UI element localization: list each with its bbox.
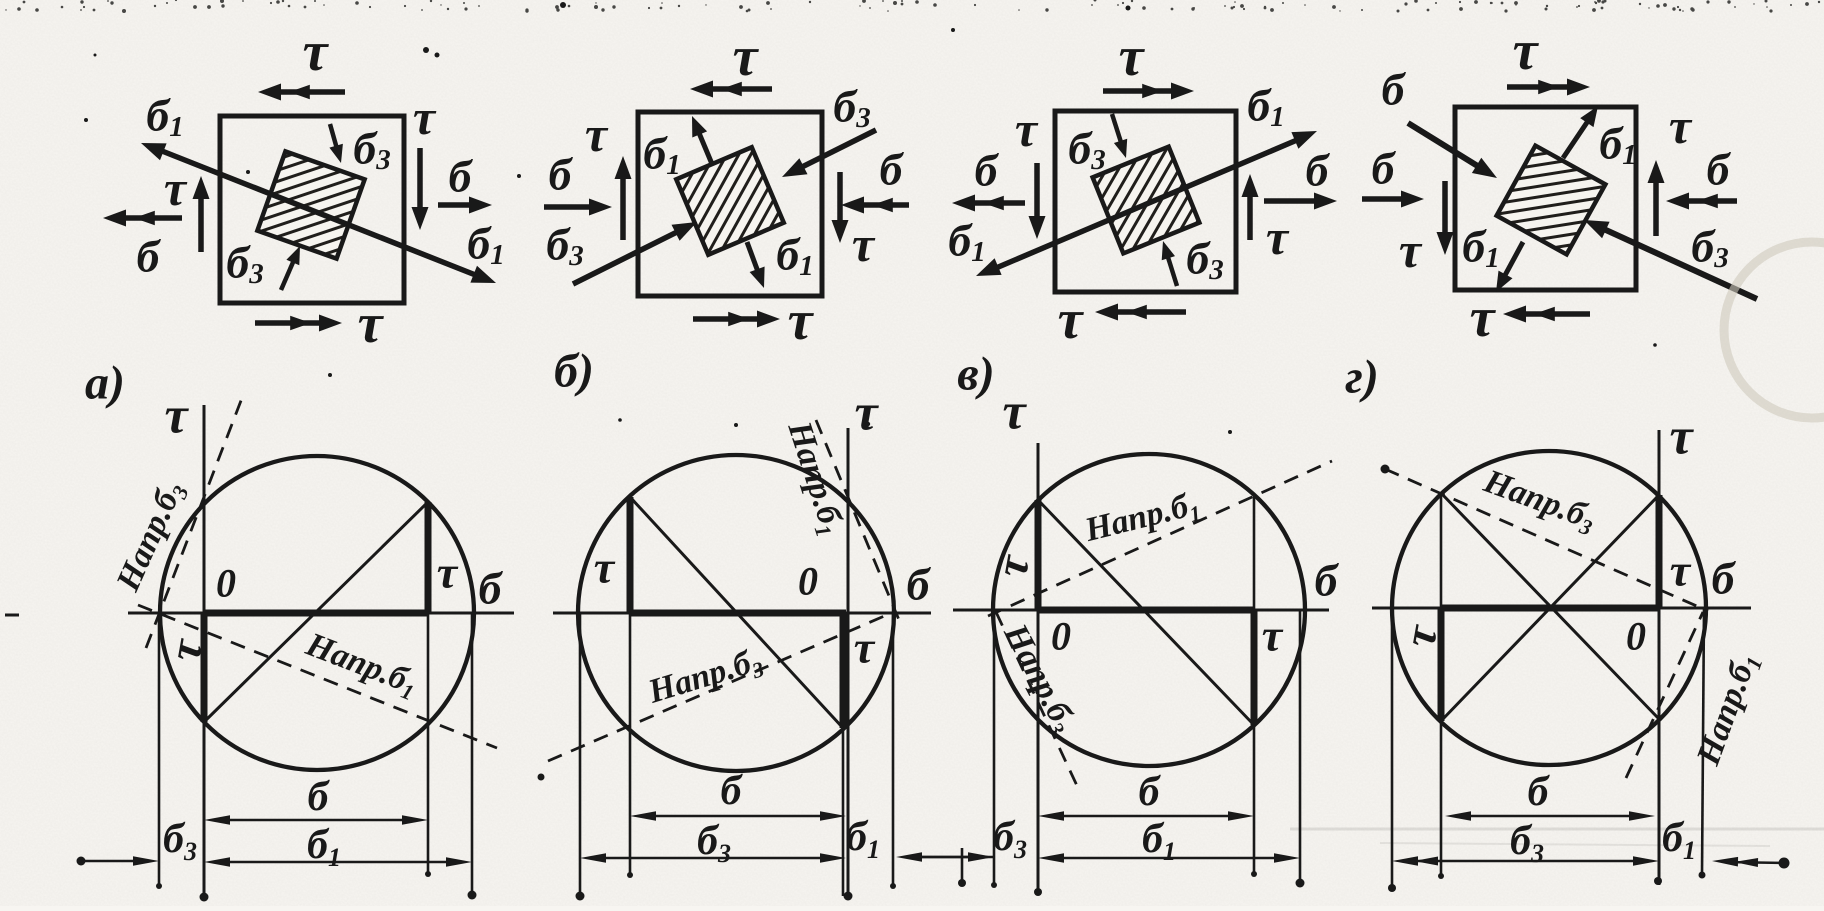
svg-text:τ: τ xyxy=(358,293,385,355)
element g: sigma3 long arrow lower-right xyxy=(1596,226,1757,300)
diagram g: left bar extension xyxy=(1440,721,1443,877)
svg-text:τ: τ xyxy=(413,89,437,145)
svg-text:τ: τ xyxy=(1669,98,1693,154)
svg-text:0: 0 xyxy=(798,559,818,604)
svg-text:τ: τ xyxy=(437,547,459,598)
diagram b: right bar below axis xyxy=(840,613,847,728)
diagram g: left bar above axis (thin) xyxy=(1440,493,1443,608)
diagram g: diagonal 2 through center xyxy=(1441,493,1659,719)
svg-text:τ: τ xyxy=(303,21,330,83)
element a: sigma3 small arrow bottom xyxy=(281,255,296,290)
diagram g: right bar on tau axis above axis xyxy=(1656,495,1663,608)
diagram a: tau axis xyxy=(203,405,206,898)
stress element g: outer square xyxy=(1455,107,1636,290)
svg-text:0: 0 xyxy=(216,561,236,606)
svg-text:τ: τ xyxy=(1002,384,1027,441)
svg-text:г): г) xyxy=(1345,351,1379,404)
stress element g: inclined hatched principal square xyxy=(1497,146,1606,255)
element a: left up arrow tau xyxy=(198,189,204,252)
diagram v: dashed direction line sigma1 xyxy=(988,461,1332,616)
diagram g: sigma dimension xyxy=(1458,815,1642,818)
diagram v: right bar below axis (thick) xyxy=(1251,610,1258,725)
diagram a: extension line left circle end xyxy=(158,613,161,887)
element g: left sigma arrow xyxy=(1362,196,1411,202)
element v: sigma3 small arrow top xyxy=(1112,114,1123,149)
svg-text:τ: τ xyxy=(585,106,609,162)
stress element a: inclined hatched principal square xyxy=(257,151,364,258)
diagram v: extension line right circle end xyxy=(1299,610,1302,884)
svg-text:б: б xyxy=(1712,553,1737,604)
element a: right sigma arrow xyxy=(438,202,479,208)
diagram v: extension line left circle end xyxy=(993,610,996,886)
element g: sigma1 arrow up out of square xyxy=(1563,115,1592,158)
svg-text:τ: τ xyxy=(1513,20,1540,82)
diagram a: extension line right circle end xyxy=(471,613,474,896)
diagram v: diagonal through center xyxy=(1038,500,1254,725)
diagram g: sigma3 dimension xyxy=(1405,860,1646,863)
element a: sigma3 small arrow top xyxy=(330,124,338,154)
diagram b: left bar extension below axis xyxy=(629,613,632,876)
element g: left down arrow tau xyxy=(1442,181,1448,242)
svg-text:б: б xyxy=(1372,143,1397,194)
element g: sigma diagonal arrow from upper left xyxy=(1408,123,1486,171)
diagram a: sigma3 dimension (outside arrow) xyxy=(81,860,144,863)
stress element v: outer square xyxy=(1055,111,1236,292)
diagram a: sigma axis xyxy=(128,612,514,615)
diagram b: sigma3 dimension xyxy=(593,857,833,860)
element v: right sigma arrow xyxy=(1264,198,1324,204)
svg-text:τ: τ xyxy=(733,26,760,88)
diagram b: diagonal through center xyxy=(630,497,843,728)
diagram v: Mohr circle xyxy=(993,454,1305,766)
element v: bottom shear arrow tau (left) xyxy=(1108,309,1186,315)
svg-text:τ: τ xyxy=(164,388,189,445)
svg-text:τ: τ xyxy=(852,216,876,272)
diagram b: dashed direction line sigma3 xyxy=(548,611,896,761)
diagram a: left bar on tau axis below axis xyxy=(201,613,208,722)
scan artifact: scattered specks xyxy=(423,47,429,53)
svg-text:τ: τ xyxy=(1266,209,1290,265)
element b: sigma3 long arrow upper-right xyxy=(794,130,876,171)
svg-text:б: б xyxy=(449,151,474,202)
element v: left sigma arrow xyxy=(965,200,1025,206)
svg-text:б: б xyxy=(907,559,932,610)
element g: right up arrow tau xyxy=(1653,173,1659,236)
stress element b: inclined hatched principal square xyxy=(676,147,784,255)
element v: right up arrow tau xyxy=(1247,187,1253,240)
svg-text:τ: τ xyxy=(1015,101,1039,157)
diagram g: sigma axis xyxy=(1372,607,1751,610)
element a: principal diagonal arrow sigma1 (both ends) xyxy=(162,151,478,276)
stress element a: outer square xyxy=(220,116,404,303)
element g: bottom shear arrow tau (left) xyxy=(1516,311,1590,317)
svg-text:τ: τ xyxy=(1119,26,1146,88)
stress element b: outer square xyxy=(638,112,822,296)
diagram a: sigma dimension xyxy=(217,819,415,822)
element g: right sigma arrow xyxy=(1679,198,1737,204)
svg-text:τ: τ xyxy=(788,290,815,352)
element b: right down arrow tau xyxy=(837,172,843,230)
diagram b: tau axis xyxy=(847,428,850,897)
diagram b: extension line left circle end xyxy=(579,613,582,896)
diagram a: Mohr circle xyxy=(160,456,474,770)
svg-text:τ: τ xyxy=(164,160,188,216)
element a: bottom shear arrow tau (right) xyxy=(255,320,329,326)
diagram b: extension line right circle end xyxy=(892,613,895,886)
svg-text:τ: τ xyxy=(1399,222,1423,278)
element b: sigma1 arrow up out of square xyxy=(696,126,712,164)
diagram g: thick sigma segment on axis xyxy=(1441,605,1659,612)
scan artifact: faint horizontal scan streak xyxy=(1290,828,1824,831)
diagram v: right bar extension xyxy=(1253,725,1256,875)
svg-text:в): в) xyxy=(957,348,994,401)
svg-text:б: б xyxy=(975,145,1000,196)
element b: bottom shear arrow tau (right) xyxy=(693,316,767,322)
svg-text:б: б xyxy=(880,144,905,195)
svg-text:τ: τ xyxy=(1670,545,1692,596)
element a: right side down arrow tau xyxy=(417,148,423,217)
element b: sigma3 long arrow lower-left xyxy=(573,228,685,284)
svg-text:τ: τ xyxy=(1470,287,1497,349)
diagram v: tau axis xyxy=(1037,443,1040,893)
svg-text:τ: τ xyxy=(854,385,879,442)
element g: top shear arrow tau (right) xyxy=(1507,84,1577,90)
diagram v: sigma1 dimension xyxy=(1051,857,1287,860)
svg-text:б: б xyxy=(1707,144,1732,195)
diagram v: sigma dimension xyxy=(1051,815,1241,818)
diagram b: right bar extension to bottom xyxy=(842,728,845,896)
svg-text:б: б xyxy=(479,563,504,614)
diagram v: sigma axis xyxy=(953,609,1329,612)
svg-text:б: б xyxy=(549,149,574,200)
diagram b: sigma axis xyxy=(553,612,931,615)
diagram g: extension line right circle end xyxy=(1702,608,1704,874)
svg-text:б: б xyxy=(1315,555,1340,606)
diagram b: sigma1 dimension (outside arrow, shaft shared to diagram v) xyxy=(908,856,994,859)
diagram g: dashed direction line sigma3 xyxy=(1385,469,1708,611)
element b: right sigma arrow xyxy=(854,202,909,208)
scan artifact: top edge speckle band xyxy=(5,0,1820,13)
element b: sigma1 arrow down out of square xyxy=(747,242,760,278)
element v: principal diagonal arrow sigma1 xyxy=(996,140,1297,268)
diagram v: right bar above axis (thin) xyxy=(1253,495,1256,610)
diagram g: tau axis xyxy=(1658,430,1661,885)
element b: top shear arrow tau (left) xyxy=(703,86,772,92)
diagram b: left bar above axis xyxy=(627,497,634,613)
diagram g: dashed direction line sigma1 xyxy=(1626,612,1703,778)
diagram a: right bar (sigma,tau point) above axis xyxy=(425,502,432,613)
diagram g: extension line left circle end xyxy=(1391,608,1394,888)
diagram v: sigma3 dimension (outside arrows shaft) xyxy=(910,856,980,859)
diagram g: diagonal 1 through center xyxy=(1441,495,1659,721)
diagram v: dashed direction line sigma3 xyxy=(996,612,1079,790)
diagram a: dashed direction line sigma3 xyxy=(146,398,242,648)
scan artifact: faint pressed ring lower right xyxy=(1724,242,1824,418)
svg-text:б: б xyxy=(137,231,162,282)
svg-text:τ: τ xyxy=(594,542,616,593)
svg-text:б: б xyxy=(721,768,744,814)
svg-text:0: 0 xyxy=(1626,614,1646,659)
svg-text:б: б xyxy=(1382,64,1407,115)
diagram b: sigma dimension xyxy=(643,815,833,818)
diagram v: stray short line and dot under left end xyxy=(961,848,964,882)
diagram b: dashed direction line sigma1 xyxy=(816,420,899,620)
diagram a: right bar extension below axis xyxy=(427,613,430,875)
svg-text:б: б xyxy=(1306,145,1331,196)
stress element v: inclined hatched principal square xyxy=(1093,147,1200,254)
svg-text:τ: τ xyxy=(1669,409,1694,466)
element b: left up arrow tau xyxy=(620,169,626,240)
element b: left sigma arrow xyxy=(544,204,599,210)
svg-text:б): б) xyxy=(554,345,594,398)
svg-text:б: б xyxy=(308,774,331,820)
svg-text:б: б xyxy=(1528,769,1551,815)
diagram v: thick sigma segment on axis xyxy=(1038,607,1254,614)
diagram g: Mohr circle xyxy=(1392,451,1706,765)
svg-text:б: б xyxy=(1139,769,1162,815)
svg-text:τ: τ xyxy=(1058,289,1085,351)
diagram a: sigma1 dimension xyxy=(217,861,459,864)
diagram a: dashed direction line sigma1 xyxy=(138,605,497,748)
element v: left down arrow tau xyxy=(1034,163,1040,226)
svg-text:τ: τ xyxy=(1262,610,1284,661)
diagram g: sigma1 dimension (outside double arrow) xyxy=(1724,862,1786,863)
diagram g: left bar below axis (thick) xyxy=(1438,608,1445,721)
element a: top shear arrow tau (left) xyxy=(271,89,345,95)
diagram v: left bar on tau axis above axis xyxy=(1035,500,1042,610)
diagram b: Mohr circle xyxy=(578,455,894,771)
element v: top shear arrow tau (right) xyxy=(1103,88,1181,94)
diagram b: thick sigma segment on axis xyxy=(630,610,846,617)
element v: sigma3 small arrow bottom xyxy=(1166,251,1177,287)
diagram a: diagonal through center xyxy=(204,502,428,722)
svg-text:0: 0 xyxy=(1051,614,1071,659)
diagram a: thick sigma segment on axis xyxy=(204,610,428,617)
svg-text:а): а) xyxy=(85,357,125,410)
element a: left sigma arrow xyxy=(116,215,182,221)
element g: sigma1 arrow down out of square xyxy=(1501,242,1523,282)
